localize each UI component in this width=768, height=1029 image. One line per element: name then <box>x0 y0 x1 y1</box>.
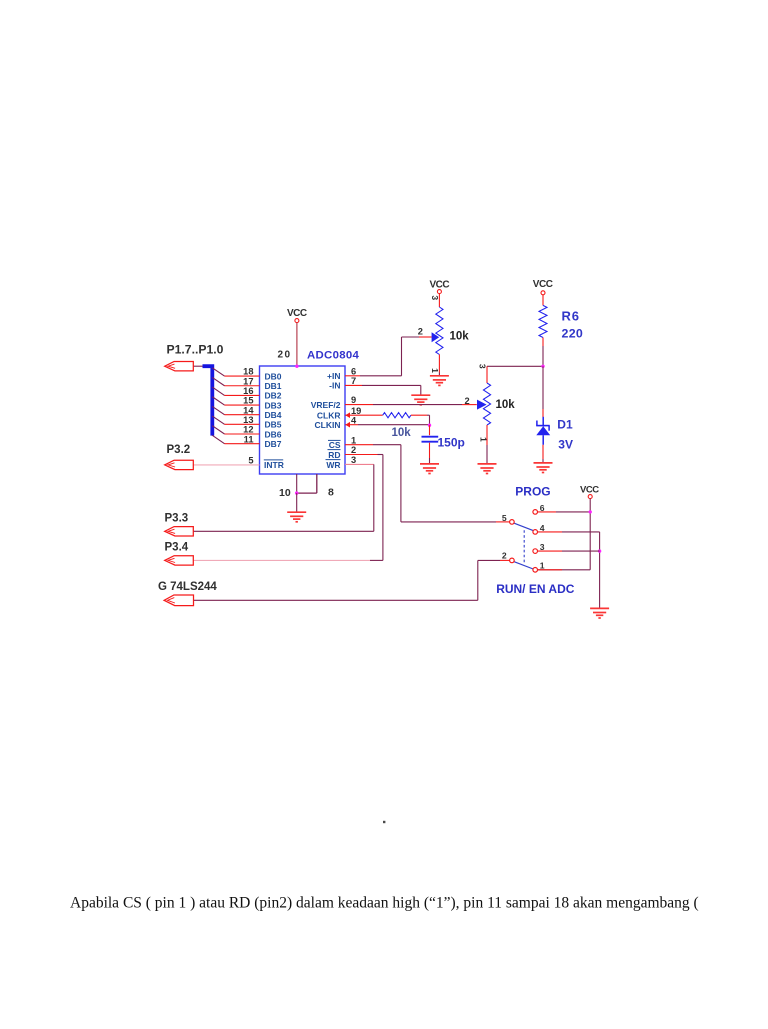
svg-text:10k: 10k <box>392 427 412 439</box>
svg-text:DB6: DB6 <box>265 429 282 439</box>
svg-text:4: 4 <box>540 523 545 533</box>
svg-text:10: 10 <box>279 487 291 499</box>
svg-text:3: 3 <box>430 295 440 300</box>
svg-text:1: 1 <box>351 435 356 445</box>
svg-text:16: 16 <box>243 386 253 396</box>
svg-text:13: 13 <box>243 415 253 425</box>
svg-text:D1: D1 <box>557 418 573 432</box>
svg-text:PROG: PROG <box>515 484 550 498</box>
svg-text:DB5: DB5 <box>265 420 282 430</box>
svg-text:4: 4 <box>351 415 357 425</box>
svg-text:19: 19 <box>351 406 361 416</box>
svg-text:+IN: +IN <box>327 371 340 381</box>
svg-text:P3.3: P3.3 <box>165 512 189 524</box>
svg-text:11: 11 <box>244 434 254 444</box>
svg-text:15: 15 <box>243 396 253 406</box>
svg-text:VCC: VCC <box>580 485 599 496</box>
svg-text:RD: RD <box>328 450 340 460</box>
svg-text:P3.2: P3.2 <box>167 444 191 456</box>
svg-text:5: 5 <box>502 513 507 523</box>
svg-text:P1.7..P1.0: P1.7..P1.0 <box>167 343 224 357</box>
svg-text:3V: 3V <box>558 438 573 452</box>
svg-text:R6: R6 <box>562 308 580 323</box>
svg-text:10k: 10k <box>496 399 516 411</box>
svg-text:DB0: DB0 <box>265 371 282 381</box>
svg-text:RUN/ EN ADC: RUN/ EN ADC <box>496 582 575 596</box>
svg-text:DB4: DB4 <box>265 410 282 420</box>
svg-text:2: 2 <box>502 550 507 560</box>
svg-text:2: 2 <box>465 396 470 406</box>
svg-text:3: 3 <box>477 364 487 369</box>
svg-text:18: 18 <box>243 367 253 377</box>
svg-text:2: 2 <box>418 327 423 337</box>
svg-text:10k: 10k <box>450 330 470 342</box>
svg-text:14: 14 <box>243 405 254 415</box>
svg-text:VCC: VCC <box>287 308 307 319</box>
svg-text:6: 6 <box>540 503 545 513</box>
svg-text:150p: 150p <box>438 436 465 450</box>
svg-text:VCC: VCC <box>430 279 450 290</box>
svg-text:3: 3 <box>351 455 356 465</box>
svg-text:20: 20 <box>278 349 292 360</box>
svg-text:-IN: -IN <box>329 381 340 391</box>
svg-text:DB7: DB7 <box>265 439 282 449</box>
svg-text:Apabila CS ( pin 1 ) atau RD (: Apabila CS ( pin 1 ) atau RD (pin2) dala… <box>70 895 699 912</box>
svg-text:17: 17 <box>243 376 253 386</box>
svg-text:3: 3 <box>540 542 545 552</box>
svg-text:CS: CS <box>329 440 341 450</box>
svg-text:VREF/2: VREF/2 <box>311 400 341 410</box>
svg-text:1: 1 <box>430 368 440 373</box>
svg-text:VCC: VCC <box>533 279 553 290</box>
svg-text:DB2: DB2 <box>265 391 282 401</box>
svg-text:5: 5 <box>248 455 253 465</box>
svg-text:WR: WR <box>326 460 340 470</box>
svg-text:9: 9 <box>351 395 356 405</box>
svg-text:1: 1 <box>540 561 545 571</box>
svg-text:DB3: DB3 <box>265 400 282 410</box>
svg-text:ADC0804: ADC0804 <box>307 350 359 362</box>
svg-text:12: 12 <box>243 425 253 435</box>
svg-text:DB1: DB1 <box>265 381 282 391</box>
svg-text:G 74LS244: G 74LS244 <box>158 581 217 593</box>
svg-text:2: 2 <box>351 445 356 455</box>
svg-text:P3.4: P3.4 <box>165 541 189 553</box>
svg-text:7: 7 <box>351 376 356 386</box>
svg-text:1: 1 <box>479 437 489 442</box>
svg-text:CLKIN: CLKIN <box>315 420 341 430</box>
svg-text:8: 8 <box>328 487 334 499</box>
svg-text:220: 220 <box>562 327 584 341</box>
svg-text:6: 6 <box>351 366 356 376</box>
svg-text:INTR: INTR <box>264 460 284 470</box>
